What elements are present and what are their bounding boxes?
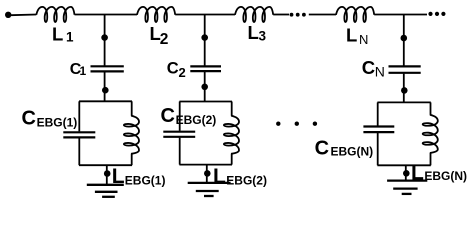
svg-text:EBG(2): EBG(2) bbox=[176, 113, 217, 127]
svg-text:L: L bbox=[248, 22, 259, 43]
svg-text:C: C bbox=[315, 138, 329, 160]
inductor L1 bbox=[36, 7, 74, 22]
wire C1 to tank 1 bbox=[104, 72, 106, 102]
tank 1 right edge lower bbox=[131, 154, 133, 166]
tank 2 left edge lower bbox=[179, 138, 181, 165]
tank 1 bottom edge bbox=[79, 164, 132, 166]
capacitor CN bbox=[389, 65, 421, 67]
top rail ellipsis left bbox=[290, 13, 294, 17]
ground 2 bbox=[188, 182, 231, 184]
wire L3 to ellipsis bbox=[273, 14, 289, 16]
top rail ellipsis right bbox=[428, 12, 432, 16]
tank 2 right edge upper bbox=[231, 102, 233, 116]
capacitor C2 bbox=[190, 65, 221, 67]
tank N right edge lower bbox=[430, 153, 432, 166]
tank 2 top edge bbox=[179, 101, 232, 103]
junction dot ground N bbox=[403, 170, 410, 177]
wire C2 to tank 2 bbox=[204, 72, 206, 102]
capacitor C1 bbox=[91, 65, 124, 67]
svg-text:EBG(N): EBG(N) bbox=[331, 145, 374, 159]
svg-text:C: C bbox=[161, 105, 175, 127]
svg-text:C: C bbox=[362, 57, 375, 78]
svg-text:L: L bbox=[346, 25, 357, 46]
tank 1 top edge bbox=[79, 100, 132, 102]
svg-text:3: 3 bbox=[259, 29, 267, 44]
junction dot ground 2 bbox=[204, 170, 211, 177]
tank N left edge upper bbox=[377, 102, 379, 125]
svg-text:N: N bbox=[359, 32, 368, 47]
junction dot node 2 bbox=[201, 34, 208, 41]
junction dot above tank 1 bbox=[102, 87, 109, 94]
tank 1 right edge upper bbox=[131, 101, 133, 116]
svg-text:L: L bbox=[52, 24, 63, 45]
wire ellipsis to LN bbox=[309, 14, 336, 16]
ground 1 bbox=[87, 184, 124, 186]
inductor L3 bbox=[235, 7, 273, 22]
svg-text:C: C bbox=[22, 108, 36, 130]
svg-text:EBG(2): EBG(2) bbox=[226, 174, 267, 188]
wire node N down to CN bbox=[403, 15, 405, 66]
tank 1 left edge upper bbox=[78, 101, 80, 131]
tank 2 right edge lower bbox=[231, 154, 233, 165]
svg-text:EBG(N): EBG(N) bbox=[424, 169, 467, 183]
tank 2 left edge upper bbox=[179, 102, 181, 131]
inductor LEBG(N) coil bbox=[423, 115, 438, 153]
junction dot ground 1 bbox=[104, 170, 111, 177]
svg-text:2: 2 bbox=[160, 31, 169, 48]
junction dot node N bbox=[401, 35, 408, 42]
wire input to L1 bbox=[11, 14, 36, 17]
wire CN to tank N bbox=[403, 74, 405, 103]
ground N bbox=[387, 179, 427, 181]
input terminal dot bbox=[5, 12, 11, 18]
tank N stub to ground bbox=[405, 165, 407, 180]
wire L1 to L2 through node 1 bbox=[75, 14, 138, 16]
capacitor CEBG(2) bbox=[163, 131, 195, 133]
capacitor CEBG(1) bbox=[63, 131, 95, 133]
svg-text:EBG(1): EBG(1) bbox=[125, 174, 166, 188]
svg-text:1: 1 bbox=[66, 30, 74, 45]
inductor LN bbox=[336, 7, 374, 22]
capacitor CEBG(N) bbox=[363, 125, 394, 127]
inductor L2 bbox=[137, 7, 175, 22]
svg-text:1: 1 bbox=[80, 64, 87, 78]
svg-text:2: 2 bbox=[179, 65, 186, 80]
wire node 2 down to C2 bbox=[204, 15, 206, 66]
wire L2 to L3 through node 2 bbox=[175, 14, 235, 16]
inductor LEBG(2) coil bbox=[224, 116, 239, 154]
tank 1 stub to ground bbox=[106, 165, 108, 184]
junction dot node 1 bbox=[101, 34, 108, 41]
tank 2 stub to ground bbox=[206, 165, 208, 182]
tank N top edge bbox=[377, 101, 430, 103]
tank N bottom edge bbox=[377, 164, 430, 166]
inductor LEBG(1) coil bbox=[124, 116, 139, 154]
svg-text:C: C bbox=[167, 60, 179, 78]
tank N left edge lower bbox=[377, 133, 379, 165]
junction dot above tank N bbox=[401, 87, 408, 94]
ellipsis between tank 2 and tank N bbox=[276, 122, 280, 126]
svg-text:EBG(1): EBG(1) bbox=[37, 115, 78, 129]
tank 1 left edge lower bbox=[78, 138, 80, 165]
wire node 1 down to C1 bbox=[104, 15, 106, 66]
junction dot above tank 2 bbox=[201, 84, 208, 91]
tank 2 bottom edge bbox=[179, 164, 232, 166]
tank N right edge upper bbox=[430, 102, 432, 115]
svg-text:N: N bbox=[375, 64, 385, 80]
svg-text:L: L bbox=[213, 165, 226, 188]
wire LN to right ellipsis through node N bbox=[374, 14, 427, 16]
